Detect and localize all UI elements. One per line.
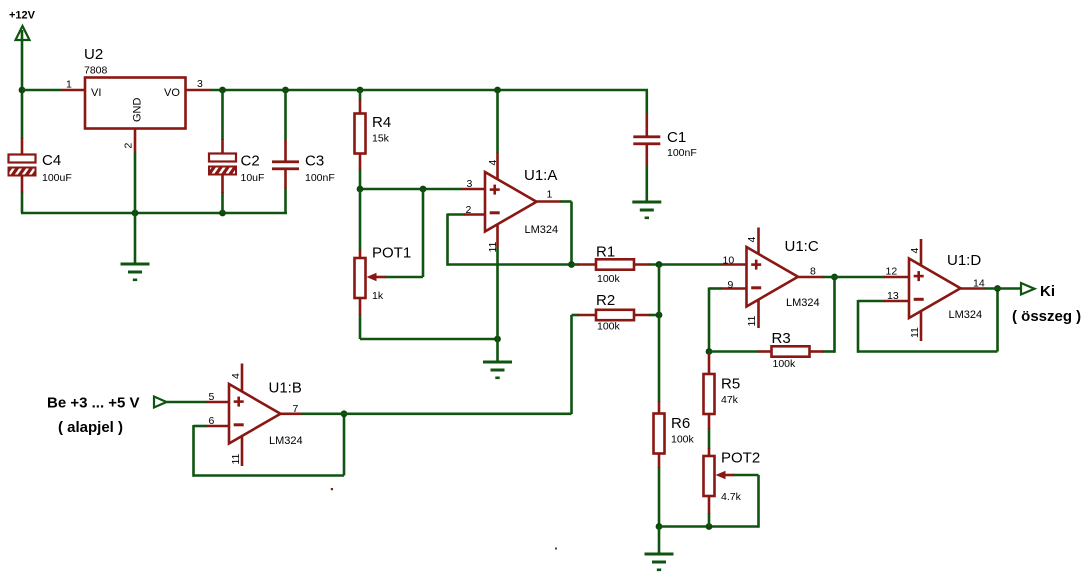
junction node U1A out / R1: [568, 261, 575, 268]
svg-text:Be +3 ... +5 V: Be +3 ... +5 V: [47, 395, 140, 412]
wire U1A out: [560, 200, 572, 203]
wire U1A feedback horizontal: [447, 263, 572, 266]
wire bottom GND rail left: [21, 212, 287, 215]
wire POT1 bottom to GND net: [360, 338, 498, 341]
potentiometer POT2 pins: [708, 448, 711, 457]
svg-text:C4: C4: [42, 152, 61, 169]
svg-text:9: 9: [728, 279, 734, 291]
svg-text:100nF: 100nF: [305, 172, 335, 184]
op-amp U1:B pin 11: [241, 436, 244, 466]
junction node U1D out feedback: [994, 285, 1001, 292]
junction node bottom rail / POT2: [706, 523, 713, 530]
svg-text:U1:A: U1:A: [524, 167, 557, 184]
wire U1A pin11 to ground: [496, 247, 499, 361]
svg-text:U1:C: U1:C: [785, 238, 819, 255]
op-amp U1:D pin 4: [920, 239, 923, 266]
svg-text:1: 1: [66, 79, 72, 91]
wire U1A feedback vertical: [446, 214, 449, 266]
wire POT2 wiper horiz: [733, 474, 759, 477]
svg-text:14: 14: [973, 278, 985, 290]
supply symbol +12V: [16, 26, 30, 40]
resistor R2 100k: [596, 310, 634, 320]
op-amp U1:D pin 14: [960, 287, 985, 290]
svg-text:VI: VI: [91, 87, 101, 99]
wire U1B feedback up: [343, 414, 346, 476]
op-amp U1:C pin 8: [798, 276, 824, 279]
svg-text:R2: R2: [596, 292, 615, 309]
wire U1A pin2 stub: [448, 213, 466, 216]
resistor R4 pins: [359, 99, 362, 114]
svg-text:VO: VO: [164, 87, 180, 99]
junction node +8V / R4: [357, 87, 364, 94]
capacitor C4 100uF: [9, 155, 36, 176]
ground G3 under C1: [632, 201, 661, 220]
resistor R6 pins: [658, 401, 661, 414]
stray dot 1: [331, 488, 333, 490]
wire node to R3 left: [709, 350, 759, 353]
svg-text:LM324: LM324: [949, 309, 983, 321]
junction node POT1 wiper tap: [420, 186, 427, 193]
capacitor C4 pins: [21, 138, 24, 155]
svg-text:10: 10: [723, 255, 735, 267]
ground G2 under U1:A pin11: [483, 361, 512, 380]
resistor R4 15k: [355, 114, 366, 154]
svg-text:13: 13: [887, 290, 899, 302]
wire R2 left down to U1B out: [570, 315, 573, 414]
stray dot 2: [555, 548, 557, 550]
capacitor C3 100nF: [272, 160, 299, 170]
POT1 wiper arrow: [374, 276, 386, 279]
op-amp U1:A: [485, 172, 537, 232]
wire POT1 bottom: [359, 314, 362, 339]
wire +12V vertical to C4: [21, 31, 24, 139]
svg-text:R6: R6: [671, 415, 690, 432]
svg-text:100k: 100k: [597, 321, 621, 333]
svg-text:11: 11: [487, 241, 499, 252]
op-amp U1:D pin 12: [884, 276, 910, 279]
wire POT2 bottom: [708, 513, 711, 527]
wire U1B feedback bottom: [193, 474, 345, 477]
wire U1C pin9 stub: [709, 287, 722, 290]
capacitor C1 100nF: [633, 135, 660, 145]
svg-text:10uF: 10uF: [241, 172, 265, 184]
op-amp U1:C: [747, 247, 799, 307]
svg-text:100nF: 100nF: [667, 147, 697, 159]
svg-text:( összeg ): ( összeg ): [1012, 308, 1081, 325]
wire U1A pin4 supply: [496, 90, 499, 153]
op-amp U1:A pin 3: [462, 188, 487, 191]
junction node VIN at C4/VI: [19, 87, 26, 94]
wire node to POT1 top: [359, 189, 362, 250]
wire bottom-right gnd rail: [659, 525, 759, 528]
svg-text:2: 2: [466, 204, 472, 216]
svg-text:U2: U2: [84, 46, 103, 63]
svg-text:1k: 1k: [372, 290, 384, 302]
wire U1C pin9 down to R3/R5 node: [708, 288, 711, 353]
wire R2 left stub: [572, 314, 580, 317]
svg-text:3: 3: [197, 78, 203, 90]
junction node R3 / R5 / pin9: [706, 348, 713, 355]
wire U1D pin13 stub: [858, 300, 885, 303]
svg-text:15k: 15k: [372, 133, 390, 145]
wire POT1 wiper up: [422, 189, 425, 277]
ground G4 bottom right: [645, 553, 674, 572]
resistor R3 100k: [772, 346, 810, 356]
op-amp U1:A pin 11: [496, 224, 499, 247]
potentiometer POT1 1k: [355, 258, 366, 298]
wire to ground G1: [134, 213, 137, 263]
op-amp U1:C pin 10: [722, 263, 748, 266]
op-amp U1:A pin 2: [464, 213, 486, 216]
wire U1D feedback left: [857, 300, 860, 353]
wire C3 bottom: [284, 188, 287, 214]
resistor R5 47k: [704, 374, 715, 414]
POT2 wiper arrow: [723, 474, 734, 477]
svg-text:POT1: POT1: [372, 245, 411, 262]
svg-text:LM324: LM324: [525, 224, 559, 236]
wire R1 right to U1C pin10: [649, 263, 722, 266]
svg-text:12: 12: [886, 266, 898, 278]
wire to ground G4: [658, 527, 661, 553]
IC U2 7808 regulator: [85, 78, 186, 129]
wire C3 top: [284, 90, 287, 141]
svg-text:11: 11: [909, 327, 921, 338]
svg-text:R3: R3: [772, 330, 791, 347]
wire R3 up to U1C out: [833, 276, 836, 353]
junction node bottom rail / R6 / ground: [656, 523, 663, 530]
svg-text:100k: 100k: [671, 434, 695, 446]
output port Ki: [1021, 283, 1035, 295]
wire R6 column upper: [658, 264, 661, 403]
capacitor C1 pins: [645, 114, 648, 137]
op-amp U1:B pin 6: [207, 425, 231, 428]
wire R2 right: [649, 314, 660, 317]
op-amp U1:B: [229, 384, 281, 444]
op-amp U1:D: [909, 259, 961, 319]
junction node +8V / C3: [282, 87, 289, 94]
op-amp U1:C pin 9: [722, 287, 748, 290]
capacitor C2 pins: [221, 139, 224, 154]
wire C1 bottom to ground: [645, 165, 648, 202]
U2 pin 2 GND: [134, 129, 137, 153]
op-amp U1:D pin 13: [884, 300, 910, 303]
svg-text:C2: C2: [241, 153, 260, 170]
wire +8V top rail: [210, 89, 648, 92]
U2 pin 1 VI: [62, 89, 86, 92]
junction node GND rail / U2 pin2: [132, 210, 139, 217]
wire POT1 wiper horiz: [385, 276, 423, 279]
op-amp U1:B pin 4: [241, 364, 244, 392]
svg-text:100k: 100k: [597, 273, 621, 285]
svg-text:R5: R5: [721, 376, 740, 393]
wire Be input to pin5: [167, 401, 208, 404]
svg-text:8: 8: [810, 266, 816, 278]
resistor R1 100k: [596, 259, 634, 269]
wire U1B feedback left vertical: [192, 425, 195, 477]
svg-text:( alapjel ): ( alapjel ): [58, 419, 123, 436]
svg-text:4: 4: [746, 237, 758, 243]
input port Be: [154, 397, 167, 408]
svg-text:6: 6: [209, 415, 215, 427]
wire to R1 left: [572, 263, 580, 266]
svg-text:1: 1: [547, 189, 553, 201]
wire POT2 wiper down: [757, 475, 760, 528]
svg-text:100uF: 100uF: [42, 172, 72, 184]
svg-text:11: 11: [230, 453, 242, 464]
wire R6 bottom: [658, 467, 661, 528]
wire to U2 VI: [22, 89, 62, 92]
svg-text:47k: 47k: [721, 394, 739, 406]
svg-text:100k: 100k: [773, 358, 797, 370]
svg-text:+12V: +12V: [9, 10, 36, 22]
wire U1A out down: [570, 202, 573, 266]
svg-text:LM324: LM324: [786, 297, 820, 309]
svg-text:R4: R4: [372, 114, 391, 131]
svg-text:C1: C1: [667, 129, 686, 146]
svg-text:POT2: POT2: [721, 450, 760, 467]
junction node U1A pin11 / POT1 gnd: [494, 336, 501, 343]
wire R4/POT1 node to U1A pin3: [360, 188, 462, 191]
op-amp U1:C pin 11: [757, 299, 760, 328]
svg-text:C3: C3: [305, 153, 324, 170]
op-amp U1:A pin 1: [536, 200, 561, 203]
svg-text:U1:B: U1:B: [269, 380, 302, 397]
resistor R3 pins: [758, 350, 773, 353]
junction node +8V / C2: [219, 87, 226, 94]
resistor R6 100k: [654, 414, 665, 454]
svg-text:11: 11: [746, 315, 758, 326]
svg-text:4: 4: [230, 373, 242, 379]
op-amp U1:D pin 11: [920, 311, 923, 342]
wire U2 pin2 down: [134, 152, 137, 213]
op-amp U1:B pin 5: [207, 401, 231, 404]
wire U1C out to U1D pin12: [823, 276, 886, 279]
svg-text:7: 7: [293, 403, 299, 415]
junction node U1C out / R3: [831, 274, 838, 281]
wire U1D out to Ki: [984, 287, 1021, 290]
wire U1B pin6 stub: [194, 425, 208, 428]
resistor R1 pins: [578, 263, 597, 266]
svg-text:R1: R1: [596, 244, 615, 261]
potentiometer POT1 pins: [359, 249, 362, 259]
svg-text:Ki: Ki: [1040, 283, 1055, 300]
wire U1B out to R2: [301, 412, 572, 415]
U2 pin 3 VO: [185, 89, 211, 92]
svg-text:LM324: LM324: [269, 435, 303, 447]
wire R4 top: [359, 90, 362, 100]
capacitor C3 pins: [284, 140, 287, 161]
svg-text:5: 5: [209, 391, 215, 403]
resistor R2 pins: [578, 314, 597, 317]
junction node R4 bottom: [357, 186, 364, 193]
svg-text:4: 4: [487, 160, 499, 166]
potentiometer POT2 4.7k: [704, 456, 715, 496]
junction node +8V / U1A pin4: [494, 87, 501, 94]
wire U1D feedback bottom: [857, 350, 998, 353]
svg-text:3: 3: [467, 178, 473, 190]
capacitor C2 10uF: [209, 154, 236, 175]
junction node GND rail / C2: [219, 210, 226, 217]
resistor R5 pins: [708, 353, 711, 375]
svg-text:GND: GND: [132, 98, 144, 123]
wire C2 bottom: [221, 192, 224, 213]
junction node R1 / R6 column: [656, 261, 663, 268]
svg-text:7808: 7808: [84, 65, 108, 77]
svg-text:U1:D: U1:D: [947, 252, 981, 269]
junction node U1B out feedback: [341, 410, 348, 417]
wire R5 to POT2: [708, 428, 711, 449]
wire C4 bottom to rail: [21, 192, 24, 214]
junction node R2 / R6 column: [656, 312, 663, 319]
wire C1 top: [645, 90, 648, 115]
ground G1 under U2: [121, 263, 150, 282]
svg-text:4.7k: 4.7k: [721, 491, 742, 503]
wire R3 right: [823, 350, 835, 353]
op-amp U1:C pin 4: [757, 228, 760, 256]
op-amp U1:B pin 7: [280, 412, 302, 415]
svg-text:2: 2: [123, 143, 135, 149]
wire R4 bottom: [359, 169, 362, 189]
op-amp U1:A pin 4: [496, 153, 499, 181]
wire C2 top: [221, 90, 224, 140]
wire U1D feedback up: [996, 288, 999, 352]
svg-text:4: 4: [909, 248, 921, 254]
